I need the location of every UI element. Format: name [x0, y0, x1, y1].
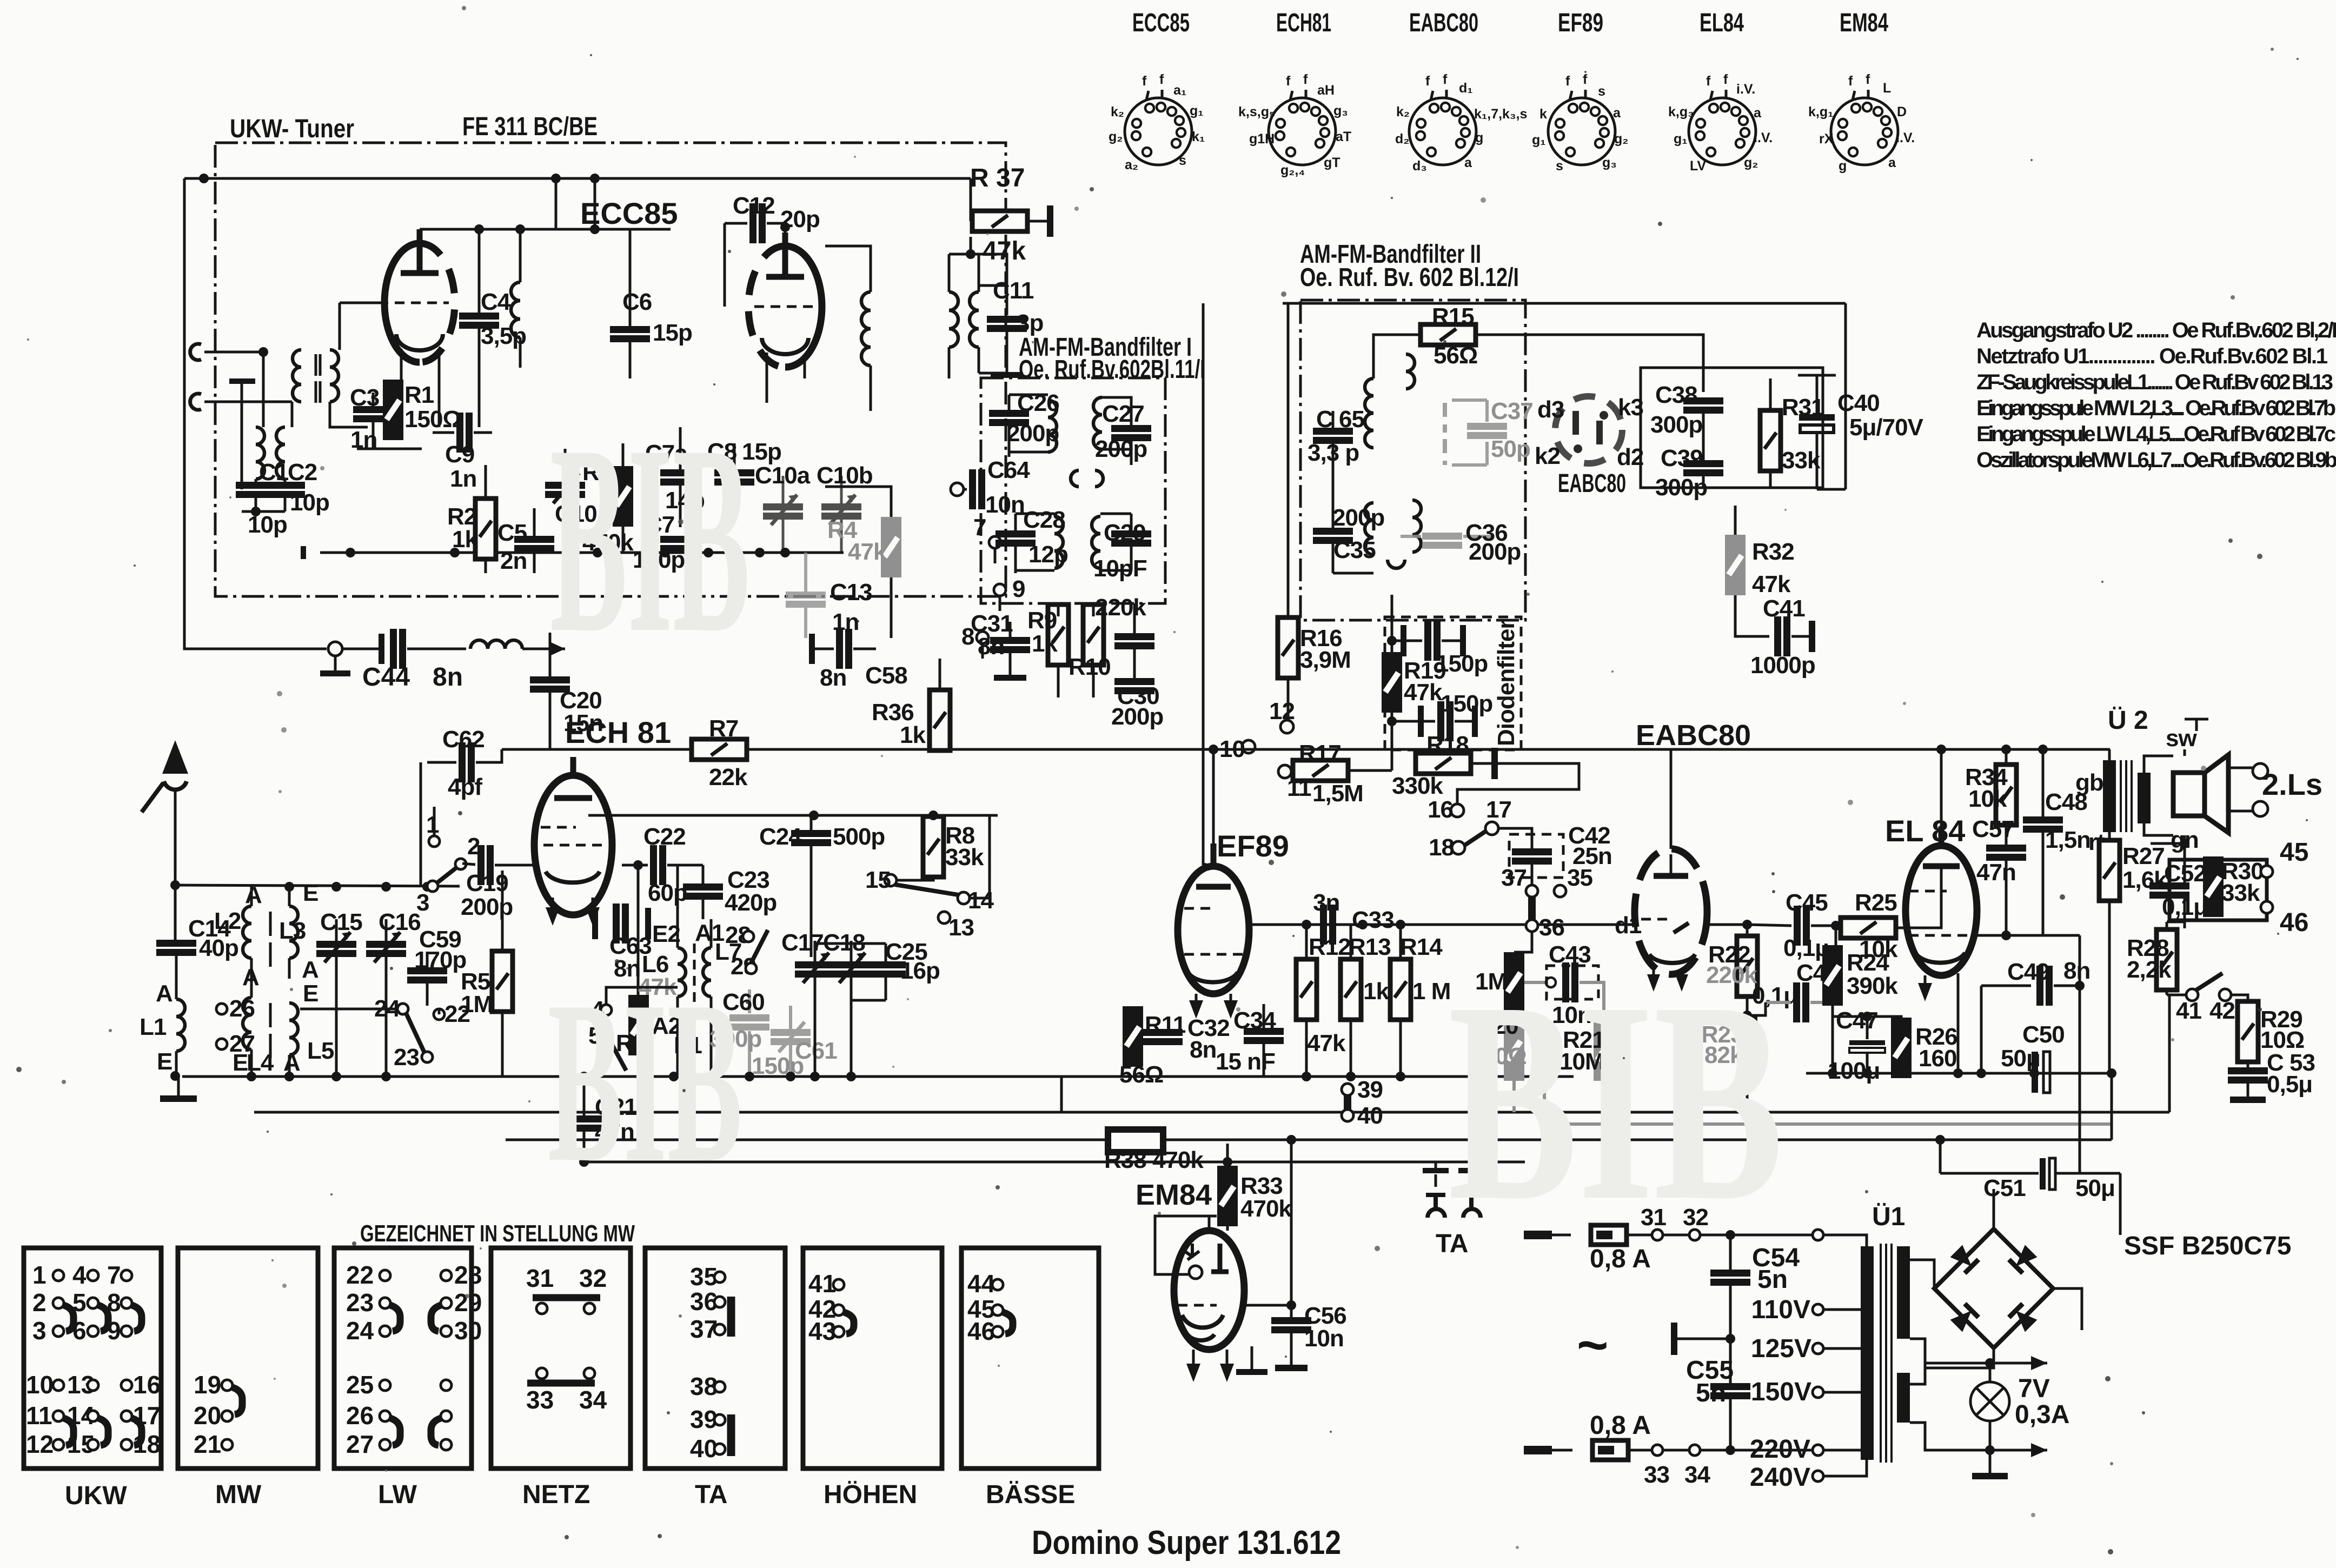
svg-text:L3: L3 — [279, 918, 306, 944]
svg-text:R13: R13 — [1349, 934, 1391, 960]
svg-text:19: 19 — [194, 1371, 221, 1399]
svg-text:C47: C47 — [1836, 1007, 1878, 1034]
svg-text:f: f — [1443, 72, 1448, 87]
svg-text:1M: 1M — [461, 991, 493, 1018]
svg-text:5n: 5n — [1757, 1265, 1788, 1294]
svg-text:200p: 200p — [461, 894, 513, 920]
svg-text:C24: C24 — [759, 823, 802, 850]
svg-text:FE 311 BC/BE: FE 311 BC/BE — [462, 112, 598, 141]
svg-text:Netztrafo U1.............. Oe.: Netztrafo U1.............. Oe.Ruf.Bv.602… — [1976, 344, 2328, 368]
svg-text:22: 22 — [346, 1261, 374, 1289]
svg-text:f: f — [1303, 72, 1308, 87]
svg-text:17: 17 — [1486, 796, 1511, 823]
svg-text:7: 7 — [107, 1261, 121, 1289]
svg-text:56Ω: 56Ω — [1434, 342, 1477, 369]
svg-text:10pF: 10pF — [1093, 555, 1147, 582]
svg-text:A: A — [242, 964, 259, 991]
svg-text:C17: C17 — [781, 929, 824, 956]
svg-text:ZF-SaugkreisspuleL1....... Oe: ZF-SaugkreisspuleL1....... Oe Ruf.Bv 602… — [1976, 370, 2333, 394]
svg-text:5n: 5n — [1696, 1379, 1726, 1407]
svg-text:43: 43 — [808, 1317, 836, 1345]
svg-text:C37: C37 — [1491, 398, 1533, 424]
svg-text:45: 45 — [2280, 838, 2308, 867]
svg-text:10n: 10n — [985, 491, 1025, 518]
svg-text:150V: 150V — [1751, 1378, 1811, 1406]
svg-text:18: 18 — [1429, 834, 1454, 861]
svg-text:10k: 10k — [1968, 786, 2007, 812]
svg-text:1,5M: 1,5M — [1312, 780, 1363, 807]
svg-text:k₂: k₂ — [1396, 104, 1410, 119]
svg-text:i.V.: i.V. — [1736, 82, 1755, 97]
svg-text:10p: 10p — [290, 489, 329, 516]
svg-text:R12: R12 — [1309, 934, 1351, 960]
svg-text:C26: C26 — [1017, 390, 1059, 416]
svg-text:31: 31 — [526, 1264, 554, 1292]
svg-text:5μ/70V: 5μ/70V — [1849, 414, 1924, 441]
svg-text:9: 9 — [1012, 576, 1025, 602]
svg-text:11: 11 — [1287, 775, 1311, 801]
svg-text:rX: rX — [1819, 131, 1834, 147]
svg-text:d₁: d₁ — [1459, 81, 1473, 96]
svg-text:k2: k2 — [1535, 443, 1560, 469]
svg-text:39: 39 — [1357, 1077, 1383, 1103]
svg-text:EF89: EF89 — [1558, 9, 1603, 37]
svg-text:26: 26 — [346, 1401, 374, 1430]
svg-text:C40: C40 — [1837, 390, 1880, 416]
svg-text:R10: R10 — [1069, 654, 1111, 680]
svg-text:15 nF: 15 nF — [1216, 1048, 1275, 1075]
svg-text:R38 470k: R38 470k — [1104, 1147, 1204, 1173]
svg-text:UKW- Tuner: UKW- Tuner — [230, 115, 354, 143]
svg-text:41: 41 — [808, 1270, 836, 1298]
svg-text:C5: C5 — [497, 520, 527, 546]
svg-text:f: f — [1159, 72, 1164, 87]
svg-text:C27: C27 — [1102, 401, 1144, 427]
svg-text:d1: d1 — [1615, 912, 1642, 939]
svg-text:SSF B250C75: SSF B250C75 — [2124, 1232, 2292, 1260]
svg-text:aH: aH — [1317, 83, 1335, 98]
svg-text:LW: LW — [378, 1480, 417, 1509]
svg-text:C34: C34 — [1233, 1007, 1276, 1034]
svg-text:EM84: EM84 — [1840, 9, 1888, 37]
svg-text:22k: 22k — [709, 764, 748, 790]
svg-text:GEZEICHNET IN STELLUNG MW: GEZEICHNET IN STELLUNG MW — [360, 1220, 635, 1247]
svg-text:1k: 1k — [1363, 978, 1389, 1005]
svg-text:10n: 10n — [1304, 1325, 1344, 1352]
svg-text:R9: R9 — [1027, 607, 1057, 634]
svg-text:150Ω: 150Ω — [404, 406, 461, 433]
svg-text:R27: R27 — [2122, 843, 2165, 869]
svg-text:Oe. Ruf.Bv.602Bl.11/I: Oe. Ruf.Bv.602Bl.11/I — [1019, 355, 1205, 384]
svg-text:s: s — [1556, 158, 1563, 174]
svg-text:R1: R1 — [404, 382, 434, 408]
svg-text:g₂: g₂ — [1744, 155, 1758, 170]
svg-text:16: 16 — [1428, 796, 1453, 823]
svg-text:10: 10 — [26, 1371, 54, 1399]
svg-text:8n: 8n — [2063, 958, 2090, 984]
svg-text:L1: L1 — [140, 1014, 167, 1040]
svg-text:k: k — [1539, 107, 1547, 122]
svg-text:ECH81: ECH81 — [1276, 9, 1331, 37]
svg-text:34: 34 — [579, 1386, 607, 1414]
svg-text:300p: 300p — [1650, 411, 1702, 438]
svg-text:240V: 240V — [1750, 1463, 1810, 1492]
svg-text:42: 42 — [2209, 998, 2235, 1024]
svg-text:C16: C16 — [379, 909, 421, 935]
svg-text:R18: R18 — [1426, 732, 1469, 758]
svg-text:1k: 1k — [452, 526, 478, 553]
svg-text:C22: C22 — [643, 823, 686, 850]
svg-text:A: A — [156, 980, 172, 1007]
svg-text:g: g — [1475, 130, 1483, 145]
svg-text:R14: R14 — [1400, 934, 1443, 960]
svg-text:R15: R15 — [1432, 303, 1474, 330]
svg-text:Eingangsspule LW L4,L5.....Oe.: Eingangsspule LW L4,L5.....Oe.Ruf Bv 602… — [1976, 422, 2336, 446]
svg-text:a: a — [1464, 155, 1472, 170]
svg-text:35: 35 — [1567, 865, 1592, 891]
svg-text:L: L — [1883, 81, 1891, 96]
svg-text:f: f — [1425, 74, 1430, 89]
svg-text:8n: 8n — [1190, 1037, 1216, 1063]
svg-text:f: f — [1286, 74, 1291, 89]
svg-text:47k: 47k — [1404, 679, 1443, 706]
svg-text:28: 28 — [454, 1261, 482, 1289]
svg-text:8n: 8n — [978, 633, 1004, 660]
svg-text:34: 34 — [1684, 1461, 1710, 1488]
svg-text:47k: 47k — [983, 237, 1026, 265]
svg-text:f: f — [1848, 74, 1853, 89]
svg-text:f: f — [1142, 74, 1147, 89]
svg-text:30: 30 — [454, 1317, 482, 1345]
svg-text:40: 40 — [1357, 1102, 1383, 1129]
svg-text:0,3A: 0,3A — [2015, 1400, 2069, 1429]
svg-text:C49: C49 — [2007, 959, 2049, 985]
svg-text:BÄSSE: BÄSSE — [986, 1480, 1075, 1509]
svg-text:150p: 150p — [1441, 690, 1492, 717]
svg-text:d3: d3 — [1537, 396, 1564, 423]
svg-text:EL 84: EL 84 — [1885, 814, 1965, 848]
svg-text:d₃: d₃ — [1412, 158, 1427, 174]
svg-text:R25: R25 — [1855, 889, 1897, 916]
svg-text:d₂: d₂ — [1395, 131, 1409, 147]
svg-text:12: 12 — [26, 1430, 54, 1458]
svg-text:ECH 81: ECH 81 — [565, 715, 671, 749]
svg-text:C6: C6 — [622, 289, 652, 315]
svg-text:33: 33 — [1644, 1461, 1669, 1488]
svg-text:1n: 1n — [450, 466, 476, 492]
svg-text:56Ω: 56Ω — [1119, 1061, 1163, 1088]
svg-text:32: 32 — [579, 1264, 607, 1292]
svg-text:C4: C4 — [481, 289, 511, 315]
svg-text:k,g₃: k,g₃ — [1668, 104, 1694, 119]
svg-text:NETZ: NETZ — [522, 1480, 590, 1509]
svg-text:C29: C29 — [1104, 520, 1146, 546]
svg-text:s: s — [1179, 153, 1186, 168]
svg-text:D: D — [1897, 104, 1907, 119]
svg-text:125V: 125V — [1751, 1334, 1811, 1363]
svg-text:R7: R7 — [709, 715, 738, 742]
svg-text:g₁: g₁ — [1532, 132, 1546, 148]
svg-text:0,1μ: 0,1μ — [1783, 935, 1829, 961]
svg-text:330k: 330k — [1392, 773, 1443, 799]
svg-text:Domino Super 131.612: Domino Super 131.612 — [1032, 1524, 1341, 1562]
svg-text:g1H: g1H — [1249, 131, 1275, 147]
svg-text:C51: C51 — [1983, 1175, 2026, 1201]
svg-text:24: 24 — [346, 1317, 374, 1345]
svg-text:1k: 1k — [900, 722, 926, 748]
svg-text:C 65: C 65 — [1316, 406, 1364, 433]
svg-text:BIB: BIB — [1448, 942, 1783, 1260]
svg-text:EL84: EL84 — [1700, 9, 1744, 37]
svg-text:E: E — [157, 1048, 172, 1075]
svg-text:200p: 200p — [1095, 436, 1147, 462]
svg-text:BIB: BIB — [550, 389, 750, 689]
svg-text:27: 27 — [346, 1430, 374, 1458]
svg-text:1: 1 — [426, 812, 439, 838]
svg-text:1n: 1n — [350, 427, 377, 453]
svg-text:47k: 47k — [1307, 1030, 1346, 1057]
svg-text:C62: C62 — [442, 726, 485, 753]
svg-text:C12: C12 — [733, 192, 775, 219]
svg-text:C35: C35 — [1333, 537, 1376, 563]
svg-text:E: E — [303, 880, 318, 906]
svg-text:11: 11 — [26, 1401, 52, 1430]
svg-text:16p: 16p — [900, 958, 940, 984]
svg-text:60p: 60p — [648, 880, 687, 906]
svg-text:C41: C41 — [1763, 595, 1805, 622]
svg-text:MW: MW — [215, 1480, 262, 1509]
svg-text:33k: 33k — [945, 844, 984, 871]
svg-text:3,9M: 3,9M — [1300, 647, 1351, 673]
svg-text:29: 29 — [454, 1288, 482, 1317]
svg-text:1,5n: 1,5n — [2045, 827, 2091, 853]
svg-text:12p: 12p — [1028, 541, 1068, 568]
svg-text:R 37: R 37 — [970, 164, 1025, 192]
svg-text:200p: 200p — [1469, 539, 1521, 565]
svg-text:Eingangsspule MW L2,L3.... Oe.: Eingangsspule MW L2,L3.... Oe.Ruf.Bv 602… — [1976, 396, 2336, 420]
svg-text:300p: 300p — [1655, 474, 1707, 501]
svg-text:8n: 8n — [433, 663, 463, 692]
svg-text:500p: 500p — [833, 823, 885, 850]
svg-text:170p: 170p — [414, 947, 466, 973]
svg-text:C38: C38 — [1655, 382, 1697, 408]
svg-text:C10b: C10b — [817, 462, 873, 489]
svg-text:C58: C58 — [865, 662, 907, 689]
svg-text:16: 16 — [133, 1371, 161, 1399]
svg-text:C50: C50 — [2022, 1021, 2065, 1048]
svg-text:Ü1: Ü1 — [1872, 1202, 1905, 1231]
svg-text:36: 36 — [1539, 914, 1564, 941]
svg-text:C9: C9 — [445, 441, 474, 468]
svg-text:10p: 10p — [248, 511, 287, 538]
svg-text:s: s — [1598, 84, 1605, 99]
svg-text:2: 2 — [32, 1288, 47, 1317]
svg-text:f: f — [1866, 72, 1870, 87]
svg-text:470k: 470k — [1240, 1195, 1292, 1222]
svg-text:33k: 33k — [2221, 880, 2260, 906]
svg-text:C64: C64 — [987, 457, 1030, 483]
svg-text:23: 23 — [394, 1044, 419, 1071]
svg-text:390k: 390k — [1847, 973, 1898, 999]
svg-text:a: a — [1888, 155, 1896, 170]
svg-text:L2: L2 — [214, 908, 241, 934]
svg-text:g₂: g₂ — [1614, 131, 1628, 147]
svg-text:7V: 7V — [2018, 1374, 2050, 1403]
svg-text:Oe. Ruf. Bv. 602 Bl.12/I: Oe. Ruf. Bv. 602 Bl.12/I — [1300, 263, 1519, 292]
svg-text:E2: E2 — [652, 921, 680, 947]
svg-text:f: f — [1565, 74, 1570, 89]
svg-text:2,2k: 2,2k — [2127, 956, 2172, 983]
svg-text:200p: 200p — [1111, 703, 1163, 730]
svg-text:a₂: a₂ — [1125, 157, 1138, 172]
svg-text:1 M: 1 M — [1412, 978, 1450, 1005]
svg-text:TA: TA — [695, 1480, 727, 1509]
svg-text:a: a — [1754, 105, 1762, 121]
svg-text:33: 33 — [526, 1386, 554, 1414]
svg-text:C28: C28 — [1023, 507, 1065, 533]
svg-text:k,g₁: k,g₁ — [1808, 104, 1833, 119]
svg-text:150p: 150p — [752, 1053, 804, 1079]
svg-text:160: 160 — [1919, 1045, 1956, 1072]
svg-text:26: 26 — [229, 995, 255, 1022]
svg-text:g₁: g₁ — [1674, 131, 1688, 147]
svg-text:C2: C2 — [288, 459, 317, 486]
svg-text:27: 27 — [229, 1031, 255, 1057]
svg-text:420p: 420p — [725, 889, 777, 916]
svg-text:UKW: UKW — [65, 1481, 127, 1510]
svg-text:50p: 50p — [1491, 436, 1530, 462]
svg-text:A: A — [283, 1049, 300, 1076]
svg-text:ECC85: ECC85 — [1132, 9, 1190, 37]
svg-text:3n: 3n — [1313, 889, 1339, 916]
svg-text:f: f — [1583, 72, 1588, 87]
svg-text:i.V.: i.V. — [1896, 130, 1915, 145]
svg-text:21: 21 — [194, 1430, 221, 1458]
svg-text:i.V.: i.V. — [1754, 130, 1773, 145]
svg-text:a: a — [1613, 105, 1621, 121]
svg-text:47n: 47n — [1976, 859, 2016, 886]
svg-text:2n: 2n — [500, 548, 527, 574]
svg-text:12: 12 — [1269, 698, 1295, 725]
svg-text:sw: sw — [2166, 725, 2197, 752]
svg-text:OszillatorspuleMW L6,L7....Oe.: OszillatorspuleMW L6,L7....Oe.Ruf.Bv.602… — [1976, 448, 2336, 472]
svg-text:C44: C44 — [362, 663, 410, 692]
svg-text:3: 3 — [416, 889, 429, 916]
svg-text:C33: C33 — [1352, 907, 1394, 933]
svg-text:k₁: k₁ — [1192, 129, 1205, 144]
svg-text:EABC80: EABC80 — [1558, 469, 1626, 498]
svg-text:gT: gT — [1324, 155, 1340, 170]
svg-text:BIB: BIB — [548, 953, 742, 1211]
svg-text:R32: R32 — [1752, 539, 1794, 565]
svg-text:C10a: C10a — [755, 462, 811, 489]
svg-text:3,3 p: 3,3 p — [1308, 440, 1359, 466]
svg-text:A: A — [302, 956, 318, 983]
svg-text:200p: 200p — [1007, 420, 1059, 447]
svg-text:g₁: g₁ — [1190, 103, 1204, 118]
svg-text:40p: 40p — [199, 935, 238, 961]
svg-text:13: 13 — [948, 914, 974, 941]
svg-text:g: g — [1839, 158, 1847, 174]
svg-text:0,8 A: 0,8 A — [1590, 1411, 1651, 1440]
svg-text:E: E — [303, 980, 318, 1007]
svg-text:C18: C18 — [823, 929, 865, 956]
svg-text:HÖHEN: HÖHEN — [824, 1480, 917, 1509]
svg-text:3p: 3p — [1017, 310, 1043, 336]
svg-text:f: f — [1723, 72, 1728, 87]
svg-text:g₃: g₃ — [1602, 155, 1617, 170]
svg-text:20p: 20p — [780, 206, 820, 232]
svg-text:k₂: k₂ — [1111, 104, 1124, 119]
svg-text:C15: C15 — [320, 909, 362, 935]
svg-text:2.Ls: 2.Ls — [2262, 767, 2322, 801]
svg-text:3: 3 — [32, 1317, 47, 1345]
svg-text:8n: 8n — [820, 665, 846, 691]
svg-text:20: 20 — [194, 1401, 221, 1430]
svg-text:110V: 110V — [1751, 1295, 1810, 1324]
svg-text:k₁,7,k₃,s: k₁,7,k₃,s — [1474, 107, 1527, 122]
svg-text:47k: 47k — [848, 539, 887, 565]
svg-text:37: 37 — [1501, 865, 1527, 891]
svg-text:Diodenfilter: Diodenfilter — [1493, 620, 1519, 746]
svg-text:EM84: EM84 — [1136, 1179, 1212, 1211]
svg-text:23: 23 — [346, 1288, 374, 1317]
svg-text:C1: C1 — [259, 459, 289, 486]
svg-text:1k: 1k — [1032, 630, 1058, 657]
svg-text:50μ: 50μ — [2075, 1175, 2115, 1201]
svg-text:k,s,g₅: k,s,g₅ — [1238, 104, 1275, 119]
svg-text:15p: 15p — [653, 320, 692, 346]
svg-text:g₃: g₃ — [1333, 103, 1348, 118]
svg-text:~: ~ — [1577, 1315, 1608, 1376]
svg-text:C3: C3 — [350, 384, 379, 411]
svg-text:L5: L5 — [307, 1038, 334, 1064]
svg-text:a₁: a₁ — [1173, 83, 1186, 98]
svg-text:15: 15 — [865, 867, 891, 893]
svg-text:220k: 220k — [1095, 594, 1146, 621]
svg-text:LV: LV — [1690, 158, 1706, 174]
svg-text:1: 1 — [32, 1261, 47, 1289]
svg-text:EABC80: EABC80 — [1409, 9, 1478, 37]
svg-text:Ausgangstrafo U2 ........ Oe R: Ausgangstrafo U2 ........ Oe Ruf.Bv.602 … — [1976, 318, 2336, 342]
svg-text:R24: R24 — [1847, 949, 1889, 976]
svg-text:gb: gb — [2075, 769, 2103, 796]
svg-text:EABC80: EABC80 — [1636, 719, 1751, 752]
svg-text:C39: C39 — [1661, 445, 1703, 471]
svg-text:g₂: g₂ — [1109, 129, 1123, 144]
svg-text:200p: 200p — [1332, 504, 1384, 531]
svg-text:50μ: 50μ — [2001, 1045, 2040, 1072]
svg-text:46: 46 — [967, 1317, 995, 1345]
svg-text:33k: 33k — [1782, 447, 1821, 474]
svg-text:47k: 47k — [1752, 571, 1791, 597]
svg-text:C57: C57 — [1972, 816, 2014, 842]
svg-text:4: 4 — [72, 1261, 87, 1289]
svg-text:41: 41 — [2176, 998, 2201, 1024]
svg-text:g₂,₄: g₂,₄ — [1280, 163, 1305, 178]
svg-text:R17: R17 — [1299, 740, 1341, 767]
svg-text:f: f — [1706, 74, 1711, 89]
svg-text:4pf: 4pf — [448, 774, 482, 800]
svg-text:C11: C11 — [993, 277, 1034, 304]
svg-text:aT: aT — [1336, 129, 1351, 144]
svg-text:25: 25 — [346, 1371, 374, 1399]
svg-text:46: 46 — [2280, 908, 2308, 937]
svg-text:Ü 2: Ü 2 — [2108, 706, 2148, 735]
svg-text:1000p: 1000p — [1750, 652, 1815, 679]
svg-text:C45: C45 — [1786, 889, 1828, 916]
svg-text:EF89: EF89 — [1217, 829, 1289, 863]
